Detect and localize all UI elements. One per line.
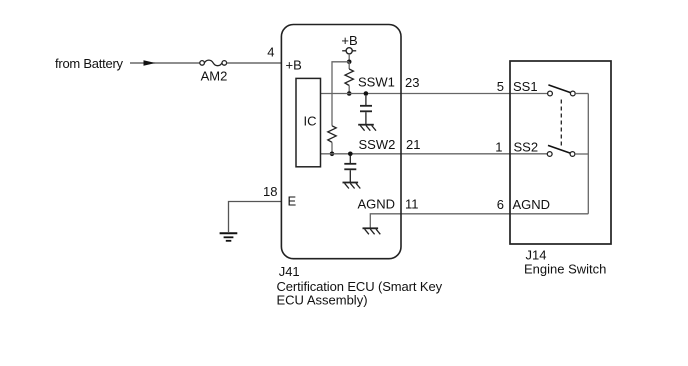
svg-text:11: 11 [405,197,419,212]
fuse AM2 [200,60,227,66]
junction dot on SSW2 at R2 [330,152,335,157]
svg-text:J14: J14 [526,248,547,263]
svg-text:18: 18 [263,184,277,199]
svg-text:+B: +B [341,33,357,48]
wire: node A to resistor R1 [348,62,350,69]
svg-text:5: 5 [497,79,504,94]
wire: AGND from ECU to engine switch [401,213,588,215]
wire: SS2 right contact to common [575,153,588,155]
svg-text:+B: +B [286,58,302,73]
junction dot on SSW2 at C2 [348,152,353,157]
wire: resistor R2 to SSW2 wire [331,142,333,154]
node A junction dot [347,60,352,65]
svg-text:SS2: SS2 [514,140,539,155]
svg-text:IC: IC [304,114,317,129]
ground: chassis ground below C2 [343,183,361,189]
wire: switch common vertical [587,94,589,214]
wire: battery feed left segment [130,62,200,64]
engine switch J14 box [510,61,611,244]
wire: SS1 right contact to common [575,93,588,95]
svg-text:SS1: SS1 [513,79,538,94]
power terminal +B (circle) [342,48,356,54]
IC U1 box [296,78,321,166]
svg-text:ECU Assembly): ECU Assembly) [277,292,368,307]
wire: +B terminal down to node A [348,54,350,62]
wire: resistor R1 to SSW1 wire [348,86,350,94]
resistor R1 [345,69,353,86]
svg-text:6: 6 [497,197,504,212]
ground: chassis ground at AGND [363,228,381,234]
wire: AGND net inside ECU [370,214,401,228]
junction dot on SSW1 at R1 [347,91,352,96]
ground: chassis ground below C1 [358,125,376,131]
wire: E pin to ground [229,202,282,233]
wire: fuse to ECU pin 4 [227,62,282,64]
switch SS1 right contact [570,91,575,96]
svg-text:SSW2: SSW2 [359,137,396,152]
svg-text:from Battery: from Battery [55,56,124,71]
wire: SSW1 net from IC to engine switch contact [321,93,548,95]
ECU J41 box [281,25,401,259]
switch SS2 right contact [570,152,575,157]
svg-text:23: 23 [405,75,419,90]
svg-text:Engine Switch: Engine Switch [524,262,606,277]
svg-text:AM2: AM2 [201,69,228,84]
arrow: current flow direction [144,60,156,66]
svg-text:J41: J41 [279,264,300,279]
capacitor C1 [360,96,372,124]
capacitor C2 [344,156,356,182]
svg-text:AGND: AGND [358,197,396,212]
ground: earth ground at E pin [220,233,238,241]
resistor R2 [328,126,336,143]
junction dot on SSW1 at C1 [364,91,369,96]
switch SS1 blade [548,85,570,93]
mechanical link dashed line [560,100,562,146]
switch SS1 left contact [548,91,553,96]
svg-text:SSW1: SSW1 [358,75,395,90]
wire: SSW2 net from IC to engine switch contact [321,153,548,155]
svg-text:21: 21 [406,137,420,152]
wire: branch from node A to resistor R2 [332,62,349,126]
switch SS2 left contact [547,152,552,157]
svg-text:4: 4 [267,45,274,60]
switch SS2 blade [548,145,570,153]
svg-text:E: E [288,194,297,209]
svg-text:1: 1 [495,140,502,155]
svg-text:AGND: AGND [513,197,551,212]
